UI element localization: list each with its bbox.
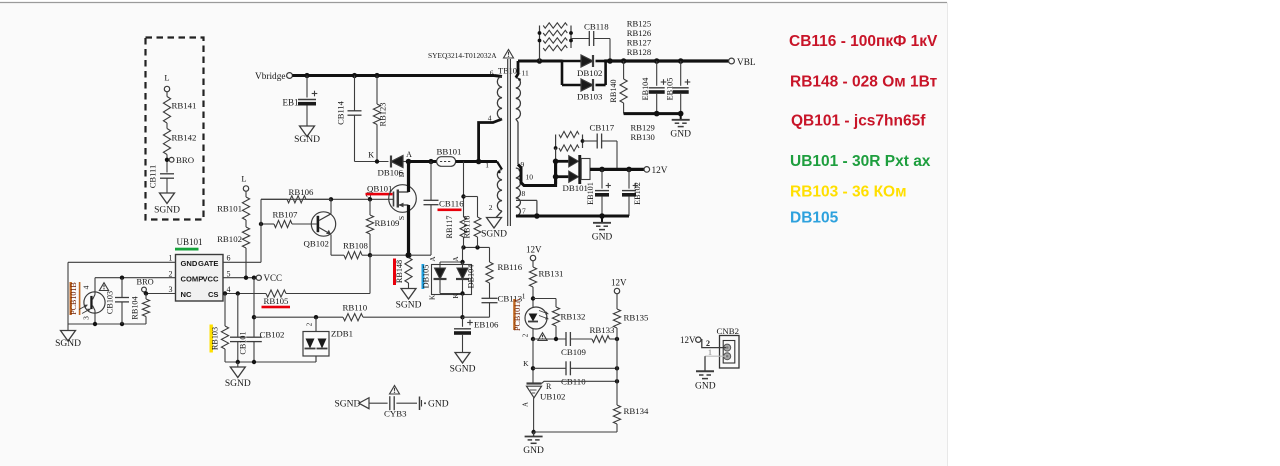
svg-text:1: 1 — [522, 292, 526, 301]
svg-text:BB101: BB101 — [437, 147, 462, 157]
svg-text:2: 2 — [489, 203, 493, 212]
diode DB105 — [421, 264, 446, 289]
transformer aux winding 1-2 — [497, 162, 502, 212]
wire to ground — [704, 356, 706, 371]
svg-text:DB104: DB104 — [467, 265, 476, 289]
snubber RB125-RB128 — [538, 23, 573, 61]
svg-text:GND: GND — [523, 446, 544, 456]
label A — [406, 150, 412, 159]
wire pin3 NC — [146, 293, 176, 295]
resistor RB106 — [261, 187, 331, 203]
junction CB116 top — [428, 159, 433, 164]
svg-text:UB101 - 30R Pxt ax: UB101 - 30R Pxt ax — [790, 153, 931, 170]
svg-text:SGND: SGND — [55, 339, 81, 349]
junction — [368, 253, 372, 257]
junction — [615, 366, 619, 370]
node VCC — [252, 273, 282, 283]
svg-text:PCB101A: PCB101A — [513, 298, 522, 331]
junction — [615, 337, 619, 341]
svg-text:8: 8 — [522, 189, 526, 198]
svg-text:12V: 12V — [652, 166, 668, 176]
background panel — [0, 3, 948, 466]
svg-text:DB101: DB101 — [563, 183, 588, 193]
svg-text:K: K — [452, 293, 460, 298]
transformer secondary winding 11-9 — [516, 78, 521, 165]
svg-text:RB141: RB141 — [172, 101, 197, 111]
svg-text:RB104: RB104 — [131, 296, 140, 319]
svg-text:CNB2: CNB2 — [717, 326, 740, 336]
connector CNB2 label — [717, 326, 740, 336]
junction — [599, 167, 605, 173]
svg-text:DB103: DB103 — [577, 92, 603, 102]
label RB126 — [627, 28, 652, 38]
svg-text:SYEQ3214-T012032A: SYEQ3214-T012032A — [428, 51, 497, 60]
svg-text:RB107: RB107 — [273, 210, 299, 220]
junction — [236, 360, 240, 364]
wire ZDB1 to ground row — [315, 356, 317, 362]
shunt regulator UB102 — [522, 382, 566, 407]
svg-text:2: 2 — [306, 322, 314, 326]
svg-text:RB132: RB132 — [561, 312, 586, 322]
resistor RB116 — [486, 261, 523, 283]
transformer primary winding 6-4 — [497, 77, 502, 119]
svg-text:RB127: RB127 — [627, 38, 652, 48]
wire — [355, 161, 389, 163]
resistor RB117 — [445, 162, 467, 248]
IC UB101 pin text CS — [208, 290, 219, 299]
svg-text:PCB101B: PCB101B — [69, 282, 78, 314]
junction — [607, 58, 613, 64]
resistor RB140 — [609, 61, 627, 114]
warning symbol — [504, 50, 514, 59]
svg-text:RB148 - 028 Ом 1Вт: RB148 - 028 Ом 1Вт — [790, 74, 938, 91]
node BRO — [137, 277, 154, 295]
wire CS riser — [369, 255, 371, 293]
wire VBL rail — [604, 59, 728, 62]
wire — [363, 316, 463, 318]
label A — [429, 256, 460, 261]
svg-text:DB105: DB105 — [421, 265, 430, 289]
svg-text:RB130: RB130 — [631, 132, 655, 142]
junction — [678, 58, 684, 64]
svg-text:UB102: UB102 — [540, 392, 565, 402]
label RB125 — [627, 19, 651, 29]
junction — [531, 366, 535, 370]
svg-text:ZDB1: ZDB1 — [331, 329, 353, 339]
optocoupler PCB101A label — [513, 298, 522, 331]
snubber RB129/RB130 — [554, 131, 585, 151]
transformer secondary winding 10-8 — [516, 168, 521, 198]
mosfet QB101 label — [366, 184, 393, 196]
junction — [678, 111, 684, 117]
wire pin6 GATE — [223, 261, 261, 263]
pin 6 — [227, 254, 231, 263]
ground GND terminal — [420, 397, 449, 411]
pin 11 — [516, 61, 529, 81]
node A junction — [406, 159, 412, 165]
resistor RB123 — [373, 76, 387, 162]
ground GND — [523, 432, 544, 456]
ground GND — [670, 114, 691, 140]
node Vbridge — [255, 72, 292, 82]
resistor RB133 — [590, 325, 618, 342]
capacitor CB114 — [336, 76, 362, 162]
resistor RB108 — [331, 241, 370, 259]
svg-text:EB104: EB104 — [641, 78, 650, 101]
wire pin 8 stub — [516, 200, 537, 216]
wire primary pin4 branch — [479, 119, 502, 162]
resistor RB134 — [613, 405, 649, 432]
IC UB101 pin text COMP — [181, 275, 204, 284]
svg-text:QB101 - jcs7hn65f: QB101 - jcs7hn65f — [791, 113, 926, 130]
svg-text:CB109: CB109 — [561, 347, 587, 357]
svg-text:CB102: CB102 — [260, 330, 285, 340]
svg-text:A: A — [406, 150, 412, 159]
junction — [475, 245, 479, 249]
junction — [531, 337, 535, 341]
pin 10 — [519, 169, 534, 182]
label RB130 — [631, 132, 655, 142]
capacitor EB106 — [454, 317, 499, 352]
ground SGND — [55, 331, 81, 350]
wire R reference — [542, 379, 620, 383]
capacitor EB105 — [665, 61, 690, 114]
part number SYEQ3214-T012032A — [428, 51, 497, 60]
resistor RB107 — [259, 210, 317, 228]
svg-text:K: K — [368, 151, 374, 160]
capacitor CB113 — [463, 283, 523, 317]
terminal L — [241, 174, 248, 198]
ground SGND — [396, 289, 422, 311]
svg-text:EB1: EB1 — [283, 98, 299, 108]
ground GND — [592, 216, 613, 242]
svg-text:1: 1 — [485, 161, 489, 170]
label K — [523, 359, 529, 368]
wire — [245, 220, 247, 227]
capacitor CYB3 — [369, 396, 417, 418]
svg-text:RB131: RB131 — [539, 269, 564, 279]
wire SGND left drop — [67, 262, 69, 324]
capacitor EB102 — [622, 169, 642, 216]
svg-text:NC: NC — [181, 290, 192, 299]
svg-text:R: R — [546, 382, 552, 391]
wire pin2 COMP — [95, 277, 176, 279]
wire COMP row — [254, 316, 343, 318]
supply 12V — [526, 245, 542, 268]
junction — [352, 73, 357, 78]
wire 12V rail — [590, 168, 644, 171]
node BRO — [165, 155, 194, 165]
svg-text:GND: GND — [428, 400, 449, 410]
zener ZDB1 — [303, 317, 353, 362]
annotation RB103 value — [790, 184, 907, 201]
svg-text:CB103: CB103 — [106, 291, 115, 314]
terminal 12V — [644, 166, 668, 176]
svg-text:RB135: RB135 — [624, 313, 650, 323]
resistor RB142 — [163, 129, 196, 155]
svg-text:VCC: VCC — [264, 273, 283, 283]
label RB128 — [627, 47, 651, 57]
junction — [375, 159, 379, 163]
diode DB106 — [378, 156, 408, 178]
wire pin1 GND — [68, 261, 176, 263]
ground SGND — [154, 193, 180, 216]
svg-text:RB126: RB126 — [627, 28, 652, 38]
dashed enclosure box — [146, 38, 204, 220]
IC U B101 box — [176, 255, 224, 302]
wire aux row — [463, 246, 490, 248]
svg-text:RB102: RB102 — [217, 234, 242, 244]
dual diode package box — [432, 265, 472, 295]
wire — [489, 247, 491, 261]
annotation RB148 value — [790, 74, 938, 91]
wire feedback row — [533, 338, 592, 340]
svg-text:CB111: CB111 — [148, 165, 158, 188]
IC UB101 pin text VCC — [202, 275, 219, 284]
ground SGND — [294, 126, 320, 145]
annotation UB101 value — [790, 153, 931, 170]
optocoupler PCB101A LED — [525, 307, 549, 329]
junction — [531, 296, 535, 300]
wire — [67, 324, 69, 331]
svg-text:2: 2 — [522, 333, 530, 337]
pin 1 — [169, 254, 173, 263]
junction — [654, 111, 660, 117]
junction — [554, 337, 558, 341]
wire LED cathode — [532, 329, 534, 340]
svg-text:CS: CS — [208, 290, 219, 299]
junction — [460, 315, 464, 319]
wire RB132 branch — [533, 299, 556, 308]
ground SGND — [481, 218, 507, 240]
svg-text:RB110: RB110 — [343, 303, 368, 313]
svg-text:RB103 - 36 КОм: RB103 - 36 КОм — [790, 184, 907, 201]
svg-text:A: A — [429, 256, 437, 261]
warning symbol — [390, 386, 400, 395]
capacitor EB104 — [641, 61, 666, 114]
svg-text:1: 1 — [708, 348, 712, 357]
svg-text:BRO: BRO — [137, 277, 154, 286]
svg-text:GATE: GATE — [198, 259, 219, 268]
optocoupler PCB101B label — [69, 282, 80, 315]
junction — [368, 197, 372, 201]
resistor RB103 — [210, 291, 229, 362]
terminal 12V — [680, 335, 701, 345]
junction — [252, 315, 256, 319]
svg-text:3: 3 — [82, 316, 91, 320]
junction — [461, 245, 465, 249]
svg-text:3: 3 — [169, 285, 173, 294]
label K — [368, 151, 374, 160]
svg-text:RB123: RB123 — [378, 102, 388, 126]
svg-text:RB116: RB116 — [498, 262, 523, 272]
resistor RB132 — [552, 307, 585, 339]
capacitor CB110 — [561, 361, 586, 386]
capacitor CB101 — [230, 294, 248, 363]
wire Vbridge to pin 6 — [494, 76, 502, 77]
label RB129 — [631, 123, 655, 133]
svg-text:A: A — [452, 256, 460, 261]
junction — [236, 291, 240, 295]
svg-text:SGND: SGND — [335, 400, 361, 410]
wire DB anode drop — [440, 247, 463, 267]
optocoupler PCB101B — [79, 292, 105, 314]
pin 4 — [82, 285, 91, 289]
junction — [531, 430, 535, 434]
pin 5 — [227, 270, 231, 279]
svg-text:6: 6 — [490, 69, 494, 78]
wire pin4 CS — [223, 293, 266, 295]
svg-text:SGND: SGND — [481, 230, 507, 240]
junction — [406, 252, 412, 258]
junction — [93, 322, 97, 326]
wire — [370, 254, 407, 256]
junction — [374, 73, 379, 78]
diode DB104 — [456, 262, 476, 288]
ground SGND — [450, 353, 476, 375]
capacitor EB1 — [283, 76, 318, 127]
pin 3 — [82, 316, 91, 320]
svg-text:EB101: EB101 — [586, 182, 595, 205]
svg-text:CB101: CB101 — [239, 331, 248, 354]
capacitor EB101 — [586, 169, 611, 216]
wire source — [407, 205, 410, 255]
pin 4 — [488, 114, 501, 123]
wire — [166, 123, 168, 129]
wire pin 2 to ground — [496, 211, 502, 218]
svg-text:RB103: RB103 — [211, 327, 220, 350]
svg-text:12V: 12V — [611, 278, 627, 288]
warning symbol — [99, 283, 108, 291]
warning symbol — [538, 333, 547, 341]
diode DB101 — [556, 155, 590, 193]
junction — [626, 167, 632, 173]
junction — [252, 360, 256, 364]
resistor RB109 — [366, 199, 400, 255]
junction — [120, 322, 124, 326]
ground SGND terminal — [335, 398, 370, 410]
wire — [166, 155, 168, 173]
svg-text:12V: 12V — [526, 245, 542, 255]
svg-text:RB142: RB142 — [172, 133, 197, 143]
wire pin 1 — [705, 348, 726, 357]
junction — [329, 197, 333, 201]
svg-text:RB109: RB109 — [375, 218, 401, 228]
IC UB101 pin text GND — [181, 259, 198, 268]
capacitor CB116 — [424, 162, 465, 256]
svg-text:11: 11 — [522, 69, 529, 78]
capacitor CB118 — [571, 22, 610, 60]
wire — [244, 248, 248, 280]
pin 1 — [522, 292, 526, 301]
svg-text:2: 2 — [706, 339, 710, 348]
annotation QB101 value — [791, 113, 926, 130]
pin 2 — [489, 203, 493, 212]
wire GND row — [534, 431, 617, 433]
pin 6 — [490, 69, 494, 78]
wire K row — [533, 367, 617, 369]
wire diode cathodes — [604, 60, 607, 85]
svg-text:EB106: EB106 — [474, 320, 499, 330]
junction ZDB1 tap — [314, 315, 318, 319]
resistor RB110 — [343, 303, 368, 321]
svg-text:10: 10 — [526, 173, 534, 182]
resistor RB101 — [217, 197, 250, 220]
svg-text:RB106: RB106 — [289, 187, 315, 197]
wire gate row — [261, 198, 394, 200]
svg-text:D: D — [397, 171, 406, 177]
svg-text:6: 6 — [227, 254, 231, 263]
svg-text:QB102: QB102 — [304, 239, 329, 249]
svg-text:GND: GND — [181, 259, 198, 268]
svg-text:A: A — [522, 402, 530, 407]
pin 9 — [521, 160, 525, 169]
terminal L (input) — [164, 73, 169, 97]
wire pin6 riser — [260, 199, 262, 262]
svg-text:QB101: QB101 — [367, 184, 392, 194]
capacitor CB111 — [148, 165, 175, 193]
wire anode — [533, 398, 535, 432]
svg-text:5: 5 — [227, 270, 231, 279]
capacitor CB102 — [246, 278, 284, 362]
svg-text:VBL: VBL — [737, 58, 756, 68]
resistor RB135 — [613, 309, 649, 339]
resistor RB141 — [163, 97, 196, 124]
svg-text:RB148: RB148 — [395, 260, 404, 283]
svg-text:RB133: RB133 — [590, 325, 616, 335]
wire pin11 rail — [518, 60, 562, 63]
svg-text:GND: GND — [592, 232, 613, 242]
svg-text:L: L — [241, 174, 246, 184]
pin 7 — [522, 207, 526, 216]
pin 3 — [169, 285, 173, 294]
svg-text:COMP: COMP — [181, 275, 204, 284]
svg-text:L: L — [164, 73, 169, 83]
transformer secondary winding 8-7 — [516, 198, 521, 216]
label G — [366, 191, 372, 200]
junction — [553, 159, 559, 165]
svg-text:BRO: BRO — [176, 155, 194, 165]
transistor QB102 — [311, 212, 335, 236]
svg-text:CB117: CB117 — [590, 123, 615, 133]
wire collector — [330, 199, 332, 214]
resistor RB102 — [217, 227, 250, 248]
wire BB101 to pin1 — [456, 160, 497, 163]
diode DB102 — [562, 55, 606, 78]
transistor QB102 label — [304, 239, 329, 249]
svg-text:4: 4 — [488, 114, 492, 123]
svg-text:RB125: RB125 — [627, 19, 651, 29]
ground SGND — [225, 362, 251, 389]
svg-text:4: 4 — [82, 285, 91, 289]
svg-text:VCC: VCC — [202, 275, 219, 284]
junction — [553, 174, 559, 180]
svg-text:4: 4 — [227, 285, 231, 294]
capacitor CB109 — [561, 332, 587, 357]
wire SGND row — [225, 361, 316, 363]
junction — [537, 58, 543, 64]
wire Vbridge rail — [292, 74, 494, 77]
svg-text:7: 7 — [522, 207, 526, 216]
svg-text:UB101: UB101 — [177, 237, 203, 247]
wire bottom row — [68, 323, 146, 325]
resistor RB104 — [131, 294, 150, 325]
IC UB101 pin text NC — [181, 290, 192, 299]
resistor RB148 — [393, 258, 412, 289]
junction — [460, 260, 464, 264]
wire 12V return row — [516, 215, 629, 218]
capacitor CB117 — [583, 123, 618, 169]
